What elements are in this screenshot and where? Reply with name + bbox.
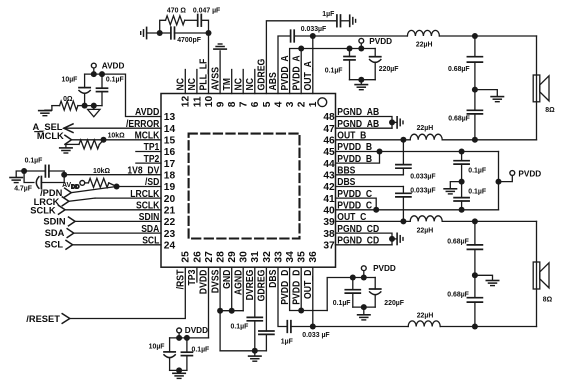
ground (digital): [249, 355, 261, 357]
svg-text:AVDD: AVDD: [102, 61, 125, 70]
svg-text:0.68µF: 0.68µF: [448, 116, 470, 123]
wire OUT_B pin 46: [336, 139, 411, 141]
ground (PVDD_D caps): [358, 314, 370, 316]
svg-text:10µF: 10µF: [149, 343, 165, 350]
ground (CD filter mid): [475, 275, 493, 280]
wire /PDN input: [71, 187, 116, 193]
svg-text:/RESET: /RESET: [26, 314, 60, 324]
svg-text:SCLK: SCLK: [30, 205, 56, 215]
wire DVSS to digital ground: [220, 350, 255, 352]
inductor 22uH (channel C): [410, 216, 442, 222]
U1 thermal pad (dashed): [189, 134, 300, 239]
svg-text:0.68µF: 0.68µF: [448, 66, 470, 73]
wire PVDD BC right riser: [498, 152, 500, 210]
svg-text:2: 2: [297, 101, 308, 107]
svg-text:10: 10: [204, 96, 215, 108]
svg-text:16: 16: [164, 147, 176, 158]
svg-text:0.1µF: 0.1µF: [25, 158, 43, 165]
terminal DVDD: [176, 335, 182, 341]
node /PDN input chevron: [65, 188, 72, 197]
svg-text:MCLK: MCLK: [37, 131, 64, 141]
capacitor 0.68uF (D lower): [474, 275, 476, 297]
U1 bottom pin labels: [176, 269, 315, 305]
svg-text:0.1µF: 0.1µF: [231, 324, 249, 331]
svg-text:5: 5: [262, 101, 273, 107]
ground (DVDD caps): [173, 372, 185, 374]
svg-text:10kΩ: 10kΩ: [93, 168, 110, 175]
wire 1V8_DV pin 18: [64, 174, 161, 176]
svg-text:47: 47: [323, 124, 335, 135]
wire DBS pin 33: [278, 267, 287, 326]
wire DBS pin 42: [336, 186, 404, 188]
resistor 10k (MCLK pulldown): [101, 137, 107, 143]
ground (PGND_AB, points right): [392, 121, 396, 123]
pin 6 NC stub: [254, 70, 256, 94]
ground (AVSS, points up): [214, 48, 226, 50]
svg-text:22µH: 22µH: [416, 41, 433, 48]
svg-text:38: 38: [323, 229, 335, 240]
wire DVDD pin 27: [208, 267, 210, 338]
node PVDD_C join: [373, 207, 379, 213]
wire SCL pin 24: [73, 244, 161, 246]
svg-text:AVDD: AVDD: [62, 182, 79, 190]
pin 7 NC stub: [242, 70, 244, 94]
node filter midpoint AB: [472, 87, 478, 93]
node LRCK input chevron: [62, 197, 69, 206]
capacitor 0.1uF (PVDD_B upper): [459, 149, 465, 155]
wire SCLK pin 21: [65, 209, 161, 211]
svg-text:1µF: 1µF: [281, 338, 293, 345]
U1 left pin labels: [126, 107, 160, 246]
wire OUT_D to LC filter: [313, 326, 408, 328]
capacitor 10uF (DVDD bulk): [169, 338, 171, 352]
svg-text:1µF: 1µF: [322, 11, 334, 18]
svg-text:0.68µF: 0.68µF: [447, 238, 469, 245]
svg-text:0.047 µF: 0.047 µF: [193, 7, 220, 14]
wire AVDD cap bottom rail: [85, 105, 102, 107]
svg-text:0.033 µF: 0.033 µF: [302, 332, 329, 339]
svg-text:37: 37: [323, 241, 335, 252]
svg-text:19: 19: [164, 182, 176, 193]
wire PVDD_C pin 41: [336, 198, 377, 210]
capacitor 0.1uF (PVDD_C lower): [461, 182, 463, 198]
svg-text:0.68µF: 0.68µF: [447, 291, 469, 298]
ground (1V8_DV): [16, 171, 24, 177]
wire OUT_C pin 39: [336, 220, 411, 222]
wire SDIN pin 22: [75, 220, 161, 222]
node OUT_C junction: [400, 218, 406, 224]
terminal AVDD: [91, 71, 97, 77]
node A_SEL output arrow: [64, 124, 73, 133]
pin 12 NC stub: [184, 70, 186, 94]
capacitor 0.68uF (C upper): [474, 221, 476, 245]
svg-text:10kΩ: 10kΩ: [108, 132, 125, 139]
speaker 8ohm (channels C/D): [536, 262, 538, 289]
U1 top pin numbers 12-1: [181, 96, 320, 108]
svg-text:14: 14: [164, 124, 176, 135]
wire PGND_AB pin 47: [336, 127, 393, 129]
capacitor 0.1uF (AVDD): [99, 71, 105, 77]
capacitor 0.033uF (DBS bootstrap D): [286, 321, 288, 333]
speaker 8ohm (channels A/B): [536, 75, 538, 102]
node SCLK input chevron: [59, 205, 66, 214]
svg-text:220µF: 220µF: [379, 66, 399, 73]
node SCL input chevron: [66, 240, 73, 249]
svg-text:SDA: SDA: [45, 228, 65, 238]
capacitor 0.1uF (PVDD_D): [350, 275, 356, 281]
svg-text:34: 34: [285, 251, 296, 263]
node PVDD_A join: [298, 46, 304, 52]
wire /RST pin 25 to /RESET: [70, 267, 186, 318]
wire OUT_A to speaker: [439, 35, 536, 37]
capacitor 0.033uF (ABS bootstrap A): [290, 30, 292, 42]
node PGND_CD: [389, 236, 395, 242]
svg-text:PVDD: PVDD: [373, 264, 396, 273]
wire PVDD_B pin 45: [336, 151, 380, 153]
wire PVDD_B pin 44: [336, 152, 380, 164]
ground (PGND_CD, points right): [392, 238, 396, 240]
svg-text:9: 9: [216, 101, 227, 107]
capacitor 4.7uF (1V8_DV): [24, 171, 34, 183]
wire MCLK pin 15: [72, 139, 162, 141]
node PLL_LF junction dots: [157, 30, 163, 36]
svg-text:17: 17: [164, 159, 176, 170]
U1 pin-1 marker circle: [318, 98, 327, 107]
svg-text:8Ω: 8Ω: [545, 107, 555, 114]
svg-text:0.033µF: 0.033µF: [410, 174, 435, 181]
svg-text:42: 42: [323, 182, 335, 193]
capacitor 0.1uF (1V8_DV): [24, 170, 45, 172]
wire PVDD_C pin 40 rail: [336, 209, 499, 211]
node MCLK input chevron: [65, 135, 72, 144]
svg-text:39: 39: [323, 217, 335, 228]
wire AGND pin 30: [242, 267, 244, 311]
svg-text:7: 7: [239, 101, 250, 107]
svg-text:4.7µF: 4.7µF: [14, 186, 32, 193]
svg-text:0.1µF: 0.1µF: [192, 346, 210, 353]
pin 26 TP3 stub: [196, 267, 198, 282]
svg-text:SDIN: SDIN: [43, 217, 65, 227]
svg-text:26: 26: [192, 251, 203, 263]
svg-text:0.1µF: 0.1µF: [333, 300, 351, 307]
node SDIN input chevron: [69, 217, 76, 226]
ground (PLL filter, left): [146, 27, 148, 38]
ground (PVDD BC mid): [450, 182, 461, 189]
U1 bottom pin numbers 25-36: [181, 251, 320, 263]
capacitor 4700pF (PLL filter): [147, 32, 171, 34]
wire /SD pin 19: [117, 186, 161, 188]
capacitor 0.033uF (DBS bootstrap C): [402, 187, 404, 194]
svg-text:27: 27: [204, 251, 215, 263]
svg-text:0.1µF: 0.1µF: [106, 77, 124, 84]
svg-text:1: 1: [308, 101, 319, 107]
inductor 22uH (channel B): [410, 134, 442, 140]
svg-text:4700pF: 4700pF: [177, 37, 201, 44]
wire AVSS pin 9: [219, 51, 221, 94]
svg-text:18: 18: [164, 171, 176, 182]
svg-text:0.1µF: 0.1µF: [325, 67, 343, 74]
svg-text:470 Ω: 470 Ω: [167, 7, 186, 14]
resistor 0 Ohm: [78, 105, 85, 107]
wire PGND_CD pin 38: [336, 233, 393, 245]
capacitor 220uF (PVDD_D bulk): [374, 278, 376, 290]
wire 0 Ohm to ground: [45, 106, 52, 111]
wire LRCLK pin 20: [95, 197, 161, 199]
svg-text:0Ω: 0Ω: [63, 96, 73, 103]
svg-text:43: 43: [323, 171, 335, 182]
wire PGND_AB pin 48: [336, 117, 393, 129]
svg-text:12: 12: [181, 96, 192, 108]
ground (AVDD triangle): [93, 106, 95, 110]
svg-text:25: 25: [181, 251, 192, 263]
wire OUT_B to speaker: [442, 139, 536, 141]
wire PGND_CD pin 37: [336, 244, 393, 246]
node digital ground: [252, 348, 258, 354]
resistor 470ohm + capacitor 0.047uF branch: [160, 20, 166, 33]
svg-text:44: 44: [323, 159, 335, 170]
svg-text:SCL: SCL: [45, 240, 64, 250]
ground (AB filter mid): [475, 90, 497, 97]
svg-text:15: 15: [164, 136, 176, 147]
svg-text:6: 6: [250, 101, 261, 107]
node filter midpoint CD: [472, 272, 478, 278]
svg-text:22µH: 22µH: [417, 312, 434, 319]
svg-text:48: 48: [323, 112, 335, 123]
capacitor 1uF (GDREG): [336, 15, 338, 27]
terminal PVDD (channels B/C): [499, 176, 513, 182]
svg-text:22: 22: [164, 217, 176, 228]
wire PVDD_D riser: [327, 278, 375, 311]
svg-text:46: 46: [323, 136, 335, 147]
pin 8 TM stub: [231, 70, 233, 94]
terminal PVDD (channel D): [361, 275, 367, 281]
svg-text:30: 30: [239, 251, 250, 263]
resistor 10k (/SD pullup): [80, 181, 85, 186]
wire OUT_D to speaker: [440, 326, 536, 328]
wire speaker CD bottom to OUT_D: [536, 289, 538, 327]
svg-text:20: 20: [164, 194, 176, 205]
node /RESET input chevron: [62, 314, 70, 324]
svg-text:PVDD: PVDD: [369, 37, 392, 46]
wire ABS pin 4 to bootstrap cap: [278, 36, 291, 94]
svg-text:PVDD: PVDD: [518, 170, 541, 179]
svg-text:23: 23: [164, 229, 176, 240]
ground (0 Ohm): [39, 110, 51, 112]
node PVDD BC mid: [459, 179, 465, 185]
ground (PVDD_A caps): [355, 84, 367, 86]
node PGND_AB: [389, 119, 395, 125]
U1 right pin numbers 48-37: [323, 112, 335, 251]
wire TP2 pin 17 stub: [136, 162, 161, 164]
capacitor 220uF (PVDD_A bulk): [374, 49, 376, 57]
wire TP1 pin 16 stub: [136, 151, 161, 153]
svg-text:3: 3: [285, 101, 296, 107]
capacitor 1uF (GDREG): [265, 267, 267, 331]
wire DVSS-GND-AGND tie: [220, 310, 243, 312]
ground (MCLK pulldown): [60, 147, 72, 149]
svg-text:8: 8: [227, 101, 238, 107]
wire PVDD_A rail: [301, 48, 375, 50]
wire PVDD_A cap ground rail: [350, 79, 376, 81]
capacitor 10uF (AVDD): [84, 74, 86, 88]
wire /ERROR pin 14: [64, 127, 161, 129]
capacitor 0.1uF (PVDD_A decoupling): [347, 46, 353, 52]
svg-text:DVDD: DVDD: [185, 326, 208, 335]
svg-text:8Ω: 8Ω: [543, 296, 553, 303]
svg-text:13: 13: [164, 112, 176, 123]
wire DVDD cap ground rail: [170, 369, 187, 371]
svg-text:40: 40: [323, 206, 335, 217]
wire OUT_A pin 1 to LC filter: [312, 36, 314, 94]
capacitor 0.68uF (A upper): [474, 36, 476, 57]
terminal PVDD (channel A): [358, 46, 364, 52]
U1 top pin labels: [176, 55, 315, 91]
svg-text:29: 29: [227, 251, 238, 263]
svg-text:0.033µF: 0.033µF: [301, 26, 326, 33]
wire DVDD rail: [170, 337, 209, 339]
capacitor 0.1uF (DVREG): [254, 267, 256, 317]
wire GDREG pin 5 to C 1uF: [266, 21, 337, 94]
svg-text:4: 4: [273, 101, 284, 107]
wire BBS pin 43: [336, 174, 404, 176]
inductor 22uH (channel A): [407, 30, 439, 36]
capacitor 0.1uF (DVDD): [184, 335, 190, 341]
svg-text:11: 11: [192, 96, 203, 107]
op-amp U1 IC body (48-pin QFP outline): [161, 94, 336, 268]
svg-text:220µF: 220µF: [384, 300, 404, 307]
U1 left pin numbers 13-24: [164, 112, 176, 251]
svg-text:22µH: 22µH: [417, 125, 434, 132]
wire OUT_D pin 36: [312, 267, 314, 326]
node 1V8 ground tie: [21, 168, 27, 174]
svg-text:0.1µF: 0.1µF: [468, 189, 486, 196]
svg-text:28: 28: [216, 251, 227, 263]
wire SDA pin 23: [74, 232, 161, 234]
wire OUT_C to speaker: [442, 220, 536, 222]
wire AVDD pin 13: [102, 74, 161, 116]
svg-text:0.1µF: 0.1µF: [468, 167, 486, 174]
capacitor 0.68uF (B lower): [474, 90, 476, 111]
svg-text:32: 32: [262, 251, 273, 263]
wire PVDD_D pin 35: [300, 267, 302, 310]
wire PVDD_A pin 2: [300, 49, 302, 94]
svg-text:0.033µF: 0.033µF: [410, 188, 435, 195]
wire AVDD rail: [85, 73, 102, 75]
wire speaker AB bottom to OUT_B: [536, 102, 538, 140]
svg-text:21: 21: [164, 206, 176, 217]
wire PVDD_D pin 34: [290, 267, 328, 310]
node SDA input chevron: [67, 229, 74, 238]
ground (GDREG 1uF, points right): [349, 15, 351, 26]
wire PVDD_A pin 3: [290, 49, 302, 94]
svg-text:33: 33: [273, 251, 284, 263]
svg-text:10µF: 10µF: [62, 77, 78, 84]
wire DVSS pin 28: [219, 267, 221, 351]
node OUT_B junction: [400, 137, 406, 143]
inductor 22uH (channel D): [408, 321, 440, 327]
svg-text:41: 41: [323, 194, 335, 205]
wire GND pin 29: [231, 267, 233, 311]
svg-text:24: 24: [164, 241, 176, 252]
svg-text:31: 31: [250, 251, 261, 263]
svg-text:45: 45: [323, 147, 335, 158]
U1 right pin labels: [337, 107, 379, 246]
capacitor 0.033uF (BBS bootstrap B): [402, 140, 404, 165]
svg-text:22µH: 22µH: [417, 228, 434, 235]
svg-text:35: 35: [297, 251, 308, 263]
wire PLL_LF pin 10: [208, 33, 210, 94]
svg-text:36: 36: [308, 251, 319, 263]
pin 11 NC stub: [196, 70, 198, 94]
wire PVDD_D cap ground rail: [353, 306, 375, 308]
